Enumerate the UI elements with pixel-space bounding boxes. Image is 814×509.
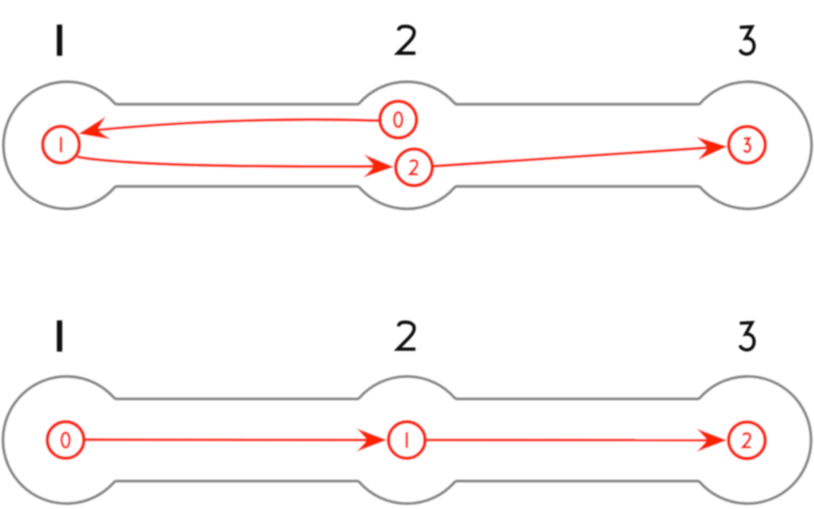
edge 0 to 1 (top) — [97, 120, 378, 130]
digit 1 — [60, 137, 62, 153]
edge 2 to 3 (top) — [434, 148, 708, 167]
label 3 (bottom) — [740, 323, 754, 350]
node 1 (top left) — [43, 126, 80, 163]
digit 0 — [62, 433, 70, 448]
edge 1 to 2 (top) — [77, 157, 374, 167]
digit 3 — [744, 138, 750, 152]
node 2 (bottom right) — [729, 422, 766, 459]
top state diagram bone outline — [4, 82, 812, 209]
node 2 (top middle lower) — [396, 149, 433, 186]
label 2 (bottom) — [398, 322, 416, 349]
node 3 (top right) — [729, 127, 766, 164]
label 1 (top) — [57, 25, 62, 56]
digit 2 — [410, 160, 418, 174]
bottom state diagram bone outline — [3, 376, 811, 503]
digit 2 — [743, 433, 751, 447]
label 2 (top) — [398, 26, 416, 53]
digit 0 — [394, 112, 402, 127]
label 3 (top) — [740, 27, 754, 54]
node 1 (bottom middle) — [389, 422, 426, 459]
digit 1 — [406, 432, 408, 448]
node 0 (top middle upper) — [380, 101, 417, 138]
edge 0 to 1 (bottom) — [85, 438, 368, 441]
label 1 (bottom) — [57, 320, 62, 351]
edge 1 to 2 (bottom) — [427, 439, 708, 442]
node 0 (bottom left) — [47, 422, 84, 459]
